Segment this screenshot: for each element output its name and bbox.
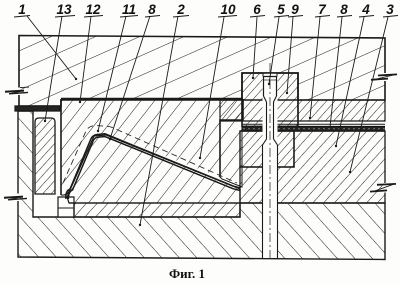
step box under sheet foot xyxy=(58,197,74,217)
wedge bottom plate xyxy=(69,203,240,217)
label 3 xyxy=(349,2,398,173)
svg-text:4: 4 xyxy=(361,2,370,17)
upper die block 12 xyxy=(61,99,243,195)
right edge break (upper) xyxy=(371,73,397,81)
label 5 xyxy=(268,2,289,85)
clamp band 7 (left of retainer) xyxy=(220,100,242,121)
left edge break (lower) xyxy=(4,194,27,202)
svg-text:12: 12 xyxy=(85,2,101,17)
filler zone left of lower retainer xyxy=(220,121,242,187)
label 2 xyxy=(139,2,189,226)
pin centerline xyxy=(269,63,271,262)
lower die ring 4 (right middle layer) xyxy=(240,131,385,203)
svg-text:9: 9 xyxy=(291,2,299,17)
lower retainer 9 xyxy=(240,131,294,167)
label 13 xyxy=(44,2,75,122)
left edge break (upper) xyxy=(5,87,29,95)
label 7 xyxy=(309,2,330,119)
svg-text:13: 13 xyxy=(56,2,72,17)
sheet blank 8 (drawn part, double line) xyxy=(66,134,240,199)
retainer bushing 6 (upper, in plate) xyxy=(242,73,298,126)
top plate 1 xyxy=(19,36,385,107)
svg-text:8: 8 xyxy=(148,2,156,17)
svg-text:3: 3 xyxy=(386,2,394,17)
svg-text:5: 5 xyxy=(277,2,285,17)
pin 5 white channel xyxy=(263,74,278,258)
svg-text:Фиг. 1: Фиг. 1 xyxy=(169,266,205,281)
svg-text:2: 2 xyxy=(176,2,185,17)
label 10 xyxy=(199,2,237,159)
label 12 xyxy=(79,2,103,103)
label 8 left xyxy=(109,2,160,140)
svg-text:10: 10 xyxy=(220,2,236,17)
pin 5 outline xyxy=(263,73,278,258)
wedge punch 2 xyxy=(67,135,240,203)
column 13 xyxy=(35,118,55,194)
dashed die-cavity phantom line xyxy=(63,126,237,184)
svg-text:11: 11 xyxy=(122,2,136,17)
svg-text:1: 1 xyxy=(18,2,26,17)
label 6 xyxy=(250,2,265,79)
label 1 xyxy=(14,2,77,80)
label 9 xyxy=(286,2,303,94)
sheet flange strip 8 (dark) xyxy=(242,126,385,131)
svg-text:7: 7 xyxy=(318,2,327,17)
right edge break (lower) xyxy=(370,183,396,193)
label 4 xyxy=(335,2,374,147)
label 8 right xyxy=(329,2,352,128)
label 11 xyxy=(97,2,138,132)
caption xyxy=(169,266,205,281)
shim strip under plate left xyxy=(15,106,60,111)
svg-text:8: 8 xyxy=(340,2,348,17)
clamp band 7 (right of retainer) xyxy=(242,100,385,124)
svg-text:6: 6 xyxy=(253,2,261,17)
base bolster 3 (left wall + bottom slab) xyxy=(18,111,385,260)
